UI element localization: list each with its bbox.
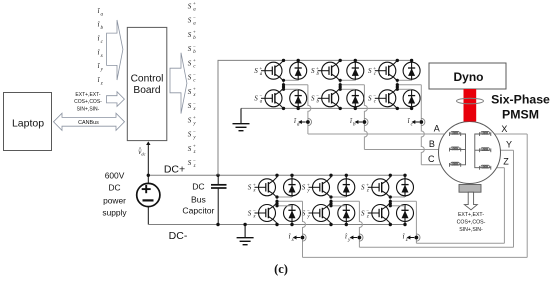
svg-text:−: − bbox=[193, 73, 196, 78]
svg-text:PMSM: PMSM bbox=[502, 108, 539, 122]
svg-text:z: z bbox=[366, 214, 369, 219]
svg-text:Capcitor: Capcitor bbox=[182, 206, 214, 216]
gate signal label S_z^+ (column) bbox=[188, 145, 196, 155]
wire midpoint leg x bbox=[277, 197, 303, 206]
svg-text:z: z bbox=[366, 189, 369, 194]
winding phase B bbox=[450, 147, 461, 152]
svg-text:+: + bbox=[193, 59, 196, 64]
current feedback label i_a bbox=[98, 7, 104, 17]
current feedback label i_x bbox=[98, 49, 104, 59]
label S_x^- bbox=[248, 209, 257, 219]
svg-text:S: S bbox=[248, 209, 252, 217]
transistor Sy- (IGBT) bbox=[309, 203, 332, 225]
svg-text:DC: DC bbox=[192, 181, 204, 191]
wire phase z to motor terminal Z bbox=[416, 168, 504, 244]
gate signal label S_x^- (column) bbox=[188, 102, 197, 112]
freewheel diode Dz+ bbox=[397, 175, 414, 197]
top inverter emitter rail bbox=[241, 107, 412, 109]
svg-text:+: + bbox=[259, 67, 262, 72]
freewheel diode Dc+ bbox=[403, 60, 420, 80]
node midpoint leg c bbox=[396, 79, 399, 91]
node z rail junctions bbox=[389, 174, 407, 227]
svg-text:+: + bbox=[253, 183, 256, 188]
node DC+ at supply bbox=[147, 174, 150, 177]
neutral bus left (abc) bbox=[461, 134, 466, 165]
label S_c^+ bbox=[368, 67, 377, 77]
current sensor i_b bbox=[350, 117, 368, 127]
svg-text:DC: DC bbox=[108, 183, 120, 193]
current feedback label i_c bbox=[98, 35, 104, 45]
dyno box bbox=[429, 63, 506, 89]
freewheel diode Db- bbox=[347, 89, 364, 108]
wire phase c to motor terminal C bbox=[421, 85, 449, 165]
svg-text:EXT+,EXT-: EXT+,EXT- bbox=[75, 92, 100, 98]
current feedback label i_z bbox=[98, 76, 103, 86]
gate signal label S_b^+ (column) bbox=[188, 31, 197, 41]
label S_a^+ bbox=[254, 67, 263, 77]
gate signal label S_x^+ (column) bbox=[188, 88, 197, 98]
svg-text:Y: Y bbox=[506, 139, 512, 149]
wire midpoint leg b bbox=[340, 80, 364, 89]
svg-text:B: B bbox=[429, 139, 435, 149]
freewheel diode Dy+ bbox=[338, 175, 355, 197]
encoder signal text EXT/COS/SIN (under motor) bbox=[457, 212, 486, 233]
label S_b^+ bbox=[311, 67, 320, 77]
winding phase A bbox=[450, 131, 461, 136]
gate signal label S_a^+ (column) bbox=[188, 2, 197, 12]
wire phase b to motor terminal B bbox=[364, 85, 449, 150]
wire phase x to motor terminal X bbox=[303, 134, 528, 257]
svg-text:S: S bbox=[188, 145, 192, 153]
transistor Sz- (IGBT) bbox=[368, 203, 391, 225]
svg-text:S: S bbox=[368, 95, 372, 103]
svg-text:S: S bbox=[361, 209, 365, 217]
svg-text:S: S bbox=[302, 184, 306, 192]
capacitor label DC Bus Capcitor bbox=[182, 181, 214, 215]
svg-text:−: − bbox=[316, 94, 319, 99]
node midpoint leg b bbox=[339, 79, 342, 91]
transistor Sc- (IGBT) bbox=[375, 88, 398, 108]
label S_y^- bbox=[302, 209, 311, 219]
gate signal label S_z^- (column) bbox=[188, 159, 196, 169]
wire phase y to motor terminal Y bbox=[359, 150, 513, 247]
node y rail junctions bbox=[329, 174, 348, 227]
svg-text:X: X bbox=[501, 124, 507, 134]
gate signal label S_y^- (column) bbox=[188, 130, 197, 140]
svg-text:S: S bbox=[368, 67, 372, 75]
ground top inverter bbox=[233, 108, 250, 130]
svg-text:S: S bbox=[188, 116, 192, 124]
terminal label C bbox=[428, 154, 435, 164]
label S_x^+ bbox=[248, 183, 257, 193]
svg-text:S: S bbox=[188, 45, 192, 53]
terminal label Y bbox=[506, 139, 512, 149]
svg-text:+: + bbox=[193, 145, 196, 150]
node c rail junctions bbox=[396, 59, 414, 110]
svg-text:S: S bbox=[248, 184, 252, 192]
svg-text:S: S bbox=[188, 74, 192, 82]
gate signal label S_y^+ (column) bbox=[188, 116, 197, 126]
current sensor i_c bbox=[408, 117, 425, 127]
svg-text:A: A bbox=[434, 124, 440, 134]
DC- label bbox=[169, 230, 188, 242]
current sensor i_z bbox=[403, 233, 421, 243]
svg-text:S: S bbox=[188, 88, 192, 96]
svg-text:+: + bbox=[307, 183, 310, 188]
CANBus double arrow bbox=[54, 113, 125, 130]
six-phase PMSM motor body bbox=[439, 122, 501, 184]
svg-text:600V: 600V bbox=[105, 170, 125, 180]
shaft coupling (red) bbox=[464, 89, 477, 122]
svg-text:C: C bbox=[428, 154, 435, 164]
freewheel diode Dx+ bbox=[284, 175, 301, 197]
svg-text:S: S bbox=[254, 67, 258, 75]
svg-text:−: − bbox=[193, 130, 196, 135]
current feedback block arrow into control board bbox=[107, 20, 123, 80]
svg-text:+: + bbox=[193, 31, 196, 36]
svg-text:Z: Z bbox=[503, 156, 509, 166]
svg-text:−: − bbox=[193, 16, 196, 21]
svg-text:Bus: Bus bbox=[191, 194, 206, 204]
label S_a^- bbox=[254, 94, 263, 104]
coupling ellipse bbox=[457, 98, 484, 104]
svg-text:Six-Phase: Six-Phase bbox=[491, 92, 550, 106]
svg-text:z: z bbox=[193, 150, 196, 155]
svg-text:Laptop: Laptop bbox=[12, 118, 44, 130]
laptop box bbox=[4, 93, 52, 151]
svg-text:DC-: DC- bbox=[169, 230, 188, 242]
DC bus capacitor C1 bbox=[211, 175, 227, 224]
encoder signal text EXT/COS/SIN (left) bbox=[74, 92, 102, 112]
transistor Sy+ (IGBT) bbox=[309, 175, 332, 197]
svg-text:S: S bbox=[188, 102, 192, 110]
600V DC power supply V1 bbox=[137, 183, 160, 206]
node capacitor top / riser bbox=[216, 174, 219, 177]
freewheel diode Dx- bbox=[284, 205, 301, 225]
current feedback label i_b bbox=[98, 21, 104, 31]
svg-text:+: + bbox=[366, 183, 369, 188]
svg-text:−: − bbox=[253, 209, 256, 214]
svg-text:Dyno: Dyno bbox=[454, 70, 484, 84]
freewheel diode Dc- bbox=[403, 89, 420, 108]
svg-text:−: − bbox=[366, 209, 369, 214]
wire midpoint leg y bbox=[331, 197, 359, 206]
wire midpoint leg c bbox=[397, 80, 421, 89]
svg-text:S: S bbox=[254, 95, 258, 103]
transistor Sa+ (IGBT) bbox=[261, 60, 284, 81]
freewheel diode Dy- bbox=[338, 205, 355, 225]
svg-text:z: z bbox=[193, 164, 196, 169]
node x rail junctions bbox=[275, 174, 293, 227]
label S_y^+ bbox=[302, 183, 311, 193]
svg-text:+: + bbox=[373, 67, 376, 72]
label S_b^- bbox=[311, 94, 320, 104]
svg-text:SIN+,SIN-: SIN+,SIN- bbox=[77, 106, 100, 112]
svg-text:Control: Control bbox=[131, 74, 164, 85]
svg-text:−: − bbox=[259, 94, 262, 99]
node midpoint leg a bbox=[282, 79, 285, 91]
motor pedestal bbox=[459, 185, 481, 193]
svg-text:+: + bbox=[193, 2, 196, 7]
winding phase Z bbox=[480, 165, 491, 170]
transistor Sz+ (IGBT) bbox=[368, 175, 391, 197]
current sensor i_a bbox=[294, 117, 312, 127]
svg-text:−: − bbox=[373, 94, 376, 99]
DC+ label bbox=[164, 164, 185, 176]
transistor Sc+ (IGBT) bbox=[375, 60, 398, 81]
transistor Sb- (IGBT) bbox=[318, 88, 341, 108]
node midpoint leg y bbox=[329, 195, 332, 207]
svg-text:power: power bbox=[103, 195, 126, 205]
svg-text:S: S bbox=[361, 184, 365, 192]
svg-text:supply: supply bbox=[102, 208, 127, 218]
svg-text:COS+,COS-: COS+,COS- bbox=[457, 220, 486, 226]
DC+ rail bbox=[148, 174, 405, 176]
riser DC+ to top inverter bbox=[217, 60, 219, 175]
svg-text:SIN+,SIN-: SIN+,SIN- bbox=[459, 227, 483, 233]
wire midpoint leg a bbox=[284, 80, 308, 89]
transistor Sx- (IGBT) bbox=[255, 203, 278, 225]
svg-text:S: S bbox=[188, 2, 192, 10]
terminal label X bbox=[501, 124, 507, 134]
svg-text:S: S bbox=[188, 131, 192, 139]
neutral bus right (xyz) bbox=[475, 134, 480, 168]
svg-text:−: − bbox=[193, 102, 196, 107]
svg-text:S: S bbox=[188, 17, 192, 25]
label S_c^- bbox=[368, 94, 377, 104]
supply label 600V DC power supply bbox=[102, 170, 127, 217]
node a rail junctions bbox=[282, 59, 300, 110]
winding phase X bbox=[480, 131, 491, 136]
winding phase C bbox=[450, 162, 461, 167]
svg-text:DC+: DC+ bbox=[164, 164, 185, 176]
label Six-Phase PMSM bbox=[491, 92, 550, 121]
current sensor i_y bbox=[345, 233, 363, 243]
node capacitor bottom bbox=[216, 223, 219, 226]
top inverter DC+ rail bbox=[218, 59, 412, 61]
svg-text:S: S bbox=[188, 31, 192, 39]
transistor Sb+ (IGBT) bbox=[318, 60, 341, 81]
caption (c) bbox=[274, 262, 288, 276]
label S_z^- bbox=[361, 209, 369, 219]
node midpoint leg z bbox=[389, 195, 392, 207]
svg-text:S: S bbox=[311, 95, 315, 103]
wire midpoint leg z bbox=[390, 197, 416, 206]
winding phase Y bbox=[480, 148, 491, 153]
svg-text:−: − bbox=[307, 209, 310, 214]
terminal label B bbox=[429, 139, 435, 149]
freewheel diode Da- bbox=[290, 89, 307, 108]
gate signal label S_b^- (column) bbox=[188, 45, 197, 55]
encoder output block arrow (down) bbox=[464, 192, 477, 210]
svg-text:−: − bbox=[193, 45, 196, 50]
freewheel diode Da+ bbox=[290, 60, 307, 80]
current sensor i_x bbox=[289, 233, 307, 243]
svg-text:(c): (c) bbox=[274, 262, 288, 276]
vdc sense wire with arrow into control board bbox=[146, 141, 150, 183]
svg-text:S: S bbox=[188, 59, 192, 67]
svg-text:+: + bbox=[193, 88, 196, 93]
svg-text:+: + bbox=[316, 67, 319, 72]
vdc sense label bbox=[138, 147, 145, 157]
svg-text:+: + bbox=[193, 116, 196, 121]
gate signal block arrow out of control board bbox=[170, 53, 187, 114]
terminal label A bbox=[434, 124, 440, 134]
current feedback label i_y bbox=[98, 62, 104, 72]
control board U1 bbox=[127, 27, 167, 140]
gate signal label S_c^- (column) bbox=[188, 73, 197, 83]
svg-text:CANBus: CANBus bbox=[78, 120, 99, 126]
gate signal label S_a^- (column) bbox=[188, 16, 197, 26]
svg-text:S: S bbox=[311, 67, 315, 75]
terminal label Z bbox=[503, 156, 509, 166]
DC- rail bbox=[148, 224, 405, 226]
svg-text:z: z bbox=[405, 238, 408, 243]
node b rail junctions bbox=[339, 59, 357, 110]
label S_z^+ bbox=[361, 183, 369, 193]
transistor Sx+ (IGBT) bbox=[255, 175, 278, 197]
ground on DC- rail bbox=[237, 223, 254, 245]
gate signal label S_c^+ (column) bbox=[188, 59, 197, 69]
node midpoint leg x bbox=[275, 195, 278, 207]
svg-text:dc: dc bbox=[141, 152, 145, 157]
wire supply minus to DC- rail bbox=[147, 207, 149, 225]
wire phase a to motor terminal A bbox=[308, 85, 450, 134]
svg-text:COS+,COS-: COS+,COS- bbox=[74, 99, 102, 105]
freewheel diode Db+ bbox=[347, 60, 364, 80]
svg-text:S: S bbox=[188, 159, 192, 167]
encoder signal block arrow into control board bbox=[107, 92, 125, 107]
svg-text:EXT+,EXT-: EXT+,EXT- bbox=[458, 212, 484, 218]
freewheel diode Dz- bbox=[397, 205, 414, 225]
svg-text:−: − bbox=[193, 159, 196, 164]
svg-text:Board: Board bbox=[133, 85, 161, 96]
transistor Sa- (IGBT) bbox=[261, 88, 284, 108]
svg-text:z: z bbox=[100, 81, 103, 86]
